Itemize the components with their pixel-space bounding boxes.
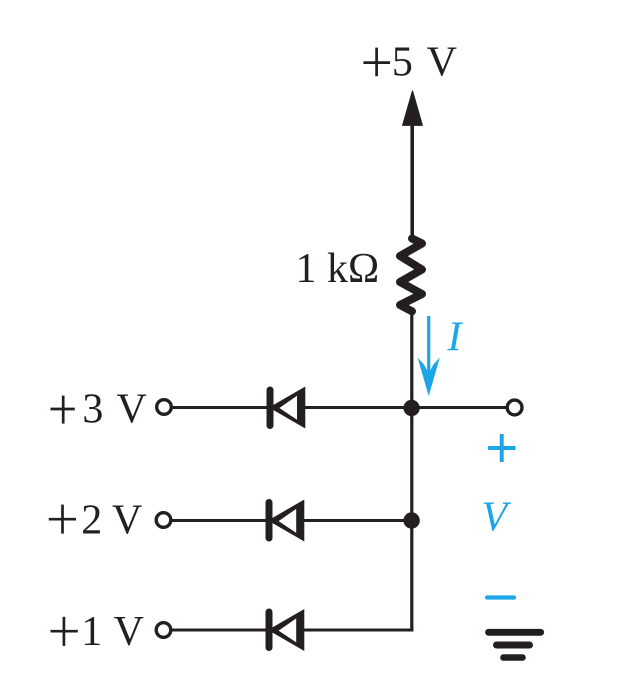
label minus (cyan, output polarity) xyxy=(487,595,514,599)
wire: diode D1 to node A and to output terminal xyxy=(305,406,507,409)
svg-text:V: V xyxy=(482,495,512,541)
resistor R1 zigzag xyxy=(400,239,422,312)
current arrow I (cyan) xyxy=(418,316,440,396)
terminal +2V label xyxy=(49,498,143,544)
diode D2 xyxy=(268,500,304,542)
wire: +3V terminal to diode D1 xyxy=(173,406,268,409)
svg-text:1: 1 xyxy=(81,609,102,655)
terminal circle +2V xyxy=(156,513,171,528)
label + (cyan, output polarity) xyxy=(488,434,516,462)
terminal circle +1V xyxy=(156,623,171,638)
wire: node A down to node B xyxy=(410,408,413,521)
terminal circle +3V xyxy=(157,400,172,415)
net +5V label xyxy=(363,40,457,86)
ground symbol xyxy=(489,632,541,657)
svg-text:V: V xyxy=(112,498,142,544)
svg-text:V: V xyxy=(427,40,457,86)
wire: +2V terminal to diode D2 xyxy=(172,519,266,522)
wire: resistor bottom to node A xyxy=(410,314,413,410)
diode D1 xyxy=(269,387,305,429)
svg-text:5: 5 xyxy=(392,40,413,86)
svg-text:V: V xyxy=(117,387,147,433)
wire: node B down to +1V branch corner xyxy=(410,521,413,632)
svg-text:3: 3 xyxy=(82,387,103,433)
wire: diode D2 to node B xyxy=(304,519,412,522)
wire: +1V terminal to diode D3 xyxy=(172,629,266,632)
svg-text:1 kΩ: 1 kΩ xyxy=(296,246,380,292)
svg-text:I: I xyxy=(447,315,464,361)
diode D3 xyxy=(268,609,304,651)
svg-text:2: 2 xyxy=(81,498,102,544)
terminal +3V label xyxy=(51,387,147,433)
wire: +5V arrow to resistor top xyxy=(410,122,414,235)
terminal +1V label xyxy=(51,609,144,655)
node B junction dot xyxy=(403,512,419,528)
power arrow up xyxy=(403,91,423,125)
node A junction dot xyxy=(403,400,419,416)
svg-text:V: V xyxy=(114,609,144,655)
output terminal circle xyxy=(507,400,522,415)
wire: diode D3 to vertical branch xyxy=(304,629,413,632)
